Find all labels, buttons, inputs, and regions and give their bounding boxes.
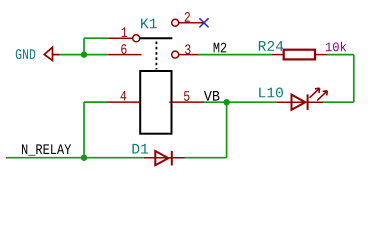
wire LED to right corner (323, 101, 354, 103)
junction at GND net (81, 51, 88, 58)
net label VB (204, 91, 220, 101)
wire vertical pin4 down to N_RELAY (83, 102, 85, 158)
relay K1 contact pin 1 (108, 37, 132, 39)
relay K1 contact blade (140, 37, 172, 39)
no-connect X on pin 2 (199, 18, 208, 27)
wire pin5 to VB junction (204, 101, 227, 103)
GND label (16, 49, 36, 59)
wire vertical up to VB (226, 102, 228, 158)
wire GND to junction (60, 54, 85, 56)
diode D1 (144, 151, 185, 166)
relay K1 coil body (140, 71, 171, 134)
pin number 3 (185, 44, 190, 54)
relay K1 actuator dashed line (155, 42, 157, 70)
pin number 4 (121, 91, 127, 100)
wire junction to pin6 (84, 54, 108, 56)
wire D1 cathode to corner (185, 157, 227, 159)
relay K1 pin 5 (169, 101, 204, 103)
relay K1 pin 2 (172, 19, 179, 26)
junction VB (223, 99, 230, 106)
relay K1 pin 3 (172, 51, 179, 58)
wire N_RELAY to diode D1 (6, 157, 144, 159)
reference D1 (132, 144, 148, 154)
value 10k (326, 42, 346, 52)
pin number 2 (185, 12, 190, 22)
wire pin4 horizontal (84, 101, 108, 103)
ground symbol GND (44, 47, 60, 60)
wire horizontal to pin1 (84, 37, 108, 39)
wire vertical junction up to pin1 net (83, 38, 85, 54)
pin number 1 (122, 27, 128, 36)
pin number 5 (184, 91, 189, 101)
pin number 6 (121, 44, 126, 54)
resistor R24 (272, 50, 327, 60)
LED L10 (277, 88, 328, 110)
wire resistor right lead to corner (327, 54, 354, 56)
reference L10 (259, 88, 283, 98)
wire VB to LED (227, 101, 277, 103)
reference K1 (141, 19, 157, 29)
junction at N_RELAY (81, 154, 88, 161)
net label M2 (214, 43, 227, 53)
relay K1 pin 4 (108, 101, 140, 103)
relay K1 pin 6 (108, 54, 141, 56)
net label N_RELAY (22, 144, 71, 155)
wire right vertical (353, 55, 355, 103)
LED arrows (310, 88, 328, 100)
reference R24 (259, 41, 283, 51)
wire M2 pin3 to resistor (199, 54, 272, 56)
